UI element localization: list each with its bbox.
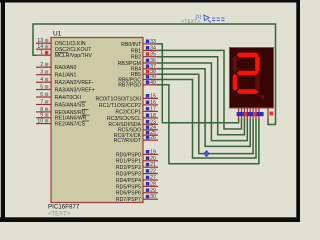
- svg-text:<TEXT>: <TEXT>: [48, 211, 71, 217]
- svg-text:16: 16: [150, 100, 156, 106]
- svg-text:27: 27: [150, 175, 156, 181]
- svg-text:7: 7: [40, 100, 43, 106]
- svg-text:20: 20: [150, 156, 156, 162]
- svg-text:RD6/PSP6: RD6/PSP6: [116, 191, 141, 197]
- svg-text:33: 33: [150, 39, 156, 45]
- svg-text:RD4/PSP4: RD4/PSP4: [116, 178, 141, 184]
- svg-text:RD0/PSP0: RD0/PSP0: [116, 152, 141, 158]
- svg-text:RB7/PGD: RB7/PGD: [118, 83, 141, 89]
- svg-text:29: 29: [150, 188, 156, 194]
- svg-text:RC3/SCK/SCL: RC3/SCK/SCL: [107, 116, 141, 122]
- svg-text:RA4/T0CKI: RA4/T0CKI: [55, 95, 81, 101]
- svg-text:RD7/PSP7: RD7/PSP7: [116, 197, 141, 203]
- svg-text:RC7/RX/DT: RC7/RX/DT: [114, 138, 142, 144]
- svg-text:RE2/AN7/CS: RE2/AN7/CS: [55, 122, 86, 128]
- svg-text:22: 22: [150, 169, 156, 175]
- svg-text:RC1/T1OSI/CCP2: RC1/T1OSI/CCP2: [99, 103, 141, 109]
- svg-text:RB0/INT: RB0/INT: [121, 42, 142, 48]
- svg-text:40: 40: [150, 80, 156, 86]
- svg-text:4: 4: [40, 77, 43, 83]
- svg-text:18: 18: [150, 113, 156, 119]
- svg-text:RD2/PSP2: RD2/PSP2: [116, 165, 141, 171]
- svg-text:6: 6: [40, 92, 43, 98]
- svg-text:RA5/AN4/SS: RA5/AN4/SS: [55, 102, 86, 108]
- svg-text:28: 28: [150, 181, 156, 187]
- svg-text:5: 5: [40, 85, 43, 91]
- svg-text:RD1/PSP1: RD1/PSP1: [116, 159, 141, 165]
- svg-text:RA3/AN3/VREF+: RA3/AN3/VREF+: [55, 87, 95, 93]
- svg-text:3: 3: [40, 70, 43, 76]
- svg-text:17: 17: [150, 106, 156, 112]
- svg-text:RA1/AN1: RA1/AN1: [55, 73, 77, 79]
- svg-text:30: 30: [150, 194, 156, 200]
- svg-text:19: 19: [150, 149, 156, 155]
- svg-text:(1): (1): [196, 14, 202, 19]
- svg-text:RA0/AN0: RA0/AN0: [55, 65, 77, 71]
- svg-text:35: 35: [150, 52, 156, 58]
- svg-text:26: 26: [150, 135, 156, 141]
- svg-text:15: 15: [150, 93, 156, 99]
- svg-text:2: 2: [40, 62, 43, 68]
- svg-text:PIC16F877: PIC16F877: [48, 204, 80, 211]
- svg-text:21: 21: [150, 162, 156, 168]
- svg-text:RB1: RB1: [131, 48, 141, 54]
- svg-text:RD5/PSP5: RD5/PSP5: [116, 184, 141, 190]
- svg-text:RB2: RB2: [131, 55, 141, 61]
- svg-text:10: 10: [37, 119, 43, 125]
- svg-text:RC0/T1OSO/T1CKI: RC0/T1OSO/T1CKI: [95, 96, 141, 102]
- svg-text:1: 1: [40, 50, 43, 56]
- svg-text:RA2/AN2/VREF-: RA2/AN2/VREF-: [55, 80, 94, 86]
- svg-text:U1: U1: [53, 30, 62, 37]
- svg-text:<TEXT>: <TEXT>: [182, 19, 201, 25]
- svg-text:34: 34: [150, 45, 156, 51]
- svg-text:RD3/PSP3: RD3/PSP3: [116, 172, 141, 178]
- svg-text:MCLR/Vpp/THV: MCLR/Vpp/THV: [55, 53, 93, 59]
- svg-text:RC2/CCP1: RC2/CCP1: [115, 109, 141, 115]
